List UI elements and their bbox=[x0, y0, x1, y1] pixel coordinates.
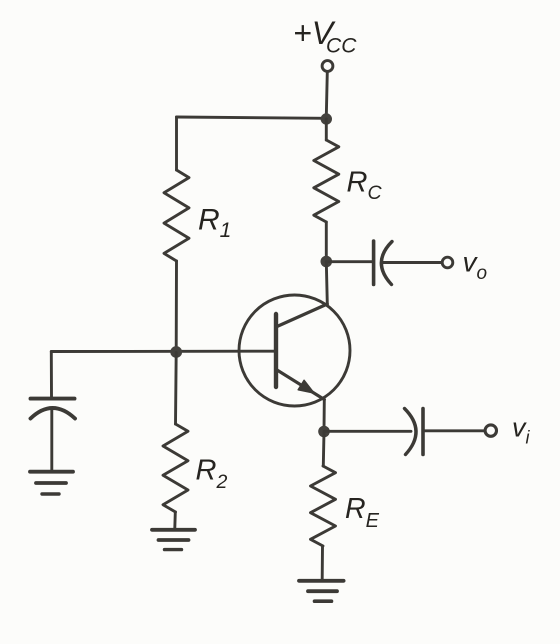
wire RC top lead bbox=[325, 119, 328, 140]
resistor RC bbox=[314, 140, 339, 222]
capacitor output coupling straight plate bbox=[372, 241, 376, 285]
node emitter junction dot bbox=[318, 426, 330, 438]
wire VCC terminal to top rail bbox=[326, 72, 327, 117]
wire base from bypass corner through base node to Q1 bbox=[51, 350, 276, 353]
terminal vi circle bbox=[485, 425, 496, 436]
terminal vo circle bbox=[442, 257, 453, 268]
capacitor input coupling curved plate bbox=[405, 409, 417, 455]
ground R2 bar1 bbox=[152, 528, 195, 532]
resistor R2 bbox=[163, 424, 188, 512]
svg-text:vo: vo bbox=[463, 247, 488, 285]
svg-text:+VCC: +VCC bbox=[293, 15, 357, 58]
ground RE bar3 bbox=[315, 599, 332, 603]
svg-text:R1: R1 bbox=[198, 204, 231, 243]
ground R2 bar2 bbox=[159, 538, 189, 542]
wire RE bottom lead to ground bbox=[321, 546, 324, 579]
wire input capacitor to vi terminal bbox=[423, 429, 485, 432]
wire emitter circle edge down to emitter node bbox=[323, 400, 326, 432]
transistor Q1 collector stroke bbox=[277, 304, 327, 327]
ground bypass bar2 bbox=[36, 481, 66, 485]
node base junction dot bbox=[170, 346, 182, 358]
svg-text:vi: vi bbox=[512, 413, 531, 448]
wire collector circle edge up to node bbox=[326, 262, 327, 304]
wire RC bottom to collector node bbox=[325, 222, 328, 261]
wire base node down to R2 bbox=[174, 352, 178, 424]
svg-text:R2: R2 bbox=[196, 455, 228, 494]
ground R2 bar3 bbox=[165, 548, 182, 551]
wire collector node to output capacitor bbox=[326, 260, 372, 263]
wire bypass capacitor down to ground bbox=[50, 410, 53, 470]
transistor Q1 emitter arrowhead bbox=[298, 380, 314, 393]
wire bypass corner down to capacitor bbox=[50, 352, 53, 398]
ground RE bar1 bbox=[299, 579, 344, 583]
wire R1 bottom to base node bbox=[175, 261, 178, 352]
node collector junction dot bbox=[321, 256, 333, 268]
resistor R1 bbox=[164, 170, 189, 261]
transistor Q1 base bar bbox=[274, 314, 278, 387]
capacitor bypass straight plate bbox=[31, 397, 75, 401]
wire emitter node to input capacitor bbox=[324, 430, 411, 433]
node VCC junction dot bbox=[321, 113, 332, 124]
transistor Q1 circle bbox=[239, 295, 350, 406]
wire top rail corner down to R1 bbox=[175, 117, 178, 170]
ground RE bar2 bbox=[308, 589, 337, 593]
ground bypass bar3 bbox=[42, 492, 59, 495]
power terminal +VCC circle bbox=[322, 61, 333, 72]
resistor RE bbox=[311, 466, 336, 546]
wire emitter node down to RE bbox=[322, 432, 326, 466]
capacitor bypass curved plate bbox=[31, 408, 76, 419]
wire R2 bottom lead to ground bbox=[173, 512, 176, 528]
capacitor input coupling straight plate bbox=[421, 409, 425, 455]
wire top rail horizontal bbox=[177, 117, 327, 118]
svg-text:RE: RE bbox=[345, 493, 380, 532]
ground bypass bar1 bbox=[30, 470, 73, 474]
svg-text:RC: RC bbox=[347, 167, 383, 205]
wire output capacitor to vo terminal bbox=[383, 261, 442, 264]
capacitor output coupling curved plate bbox=[381, 242, 392, 285]
transistor Q1 emitter stroke bbox=[277, 370, 324, 400]
